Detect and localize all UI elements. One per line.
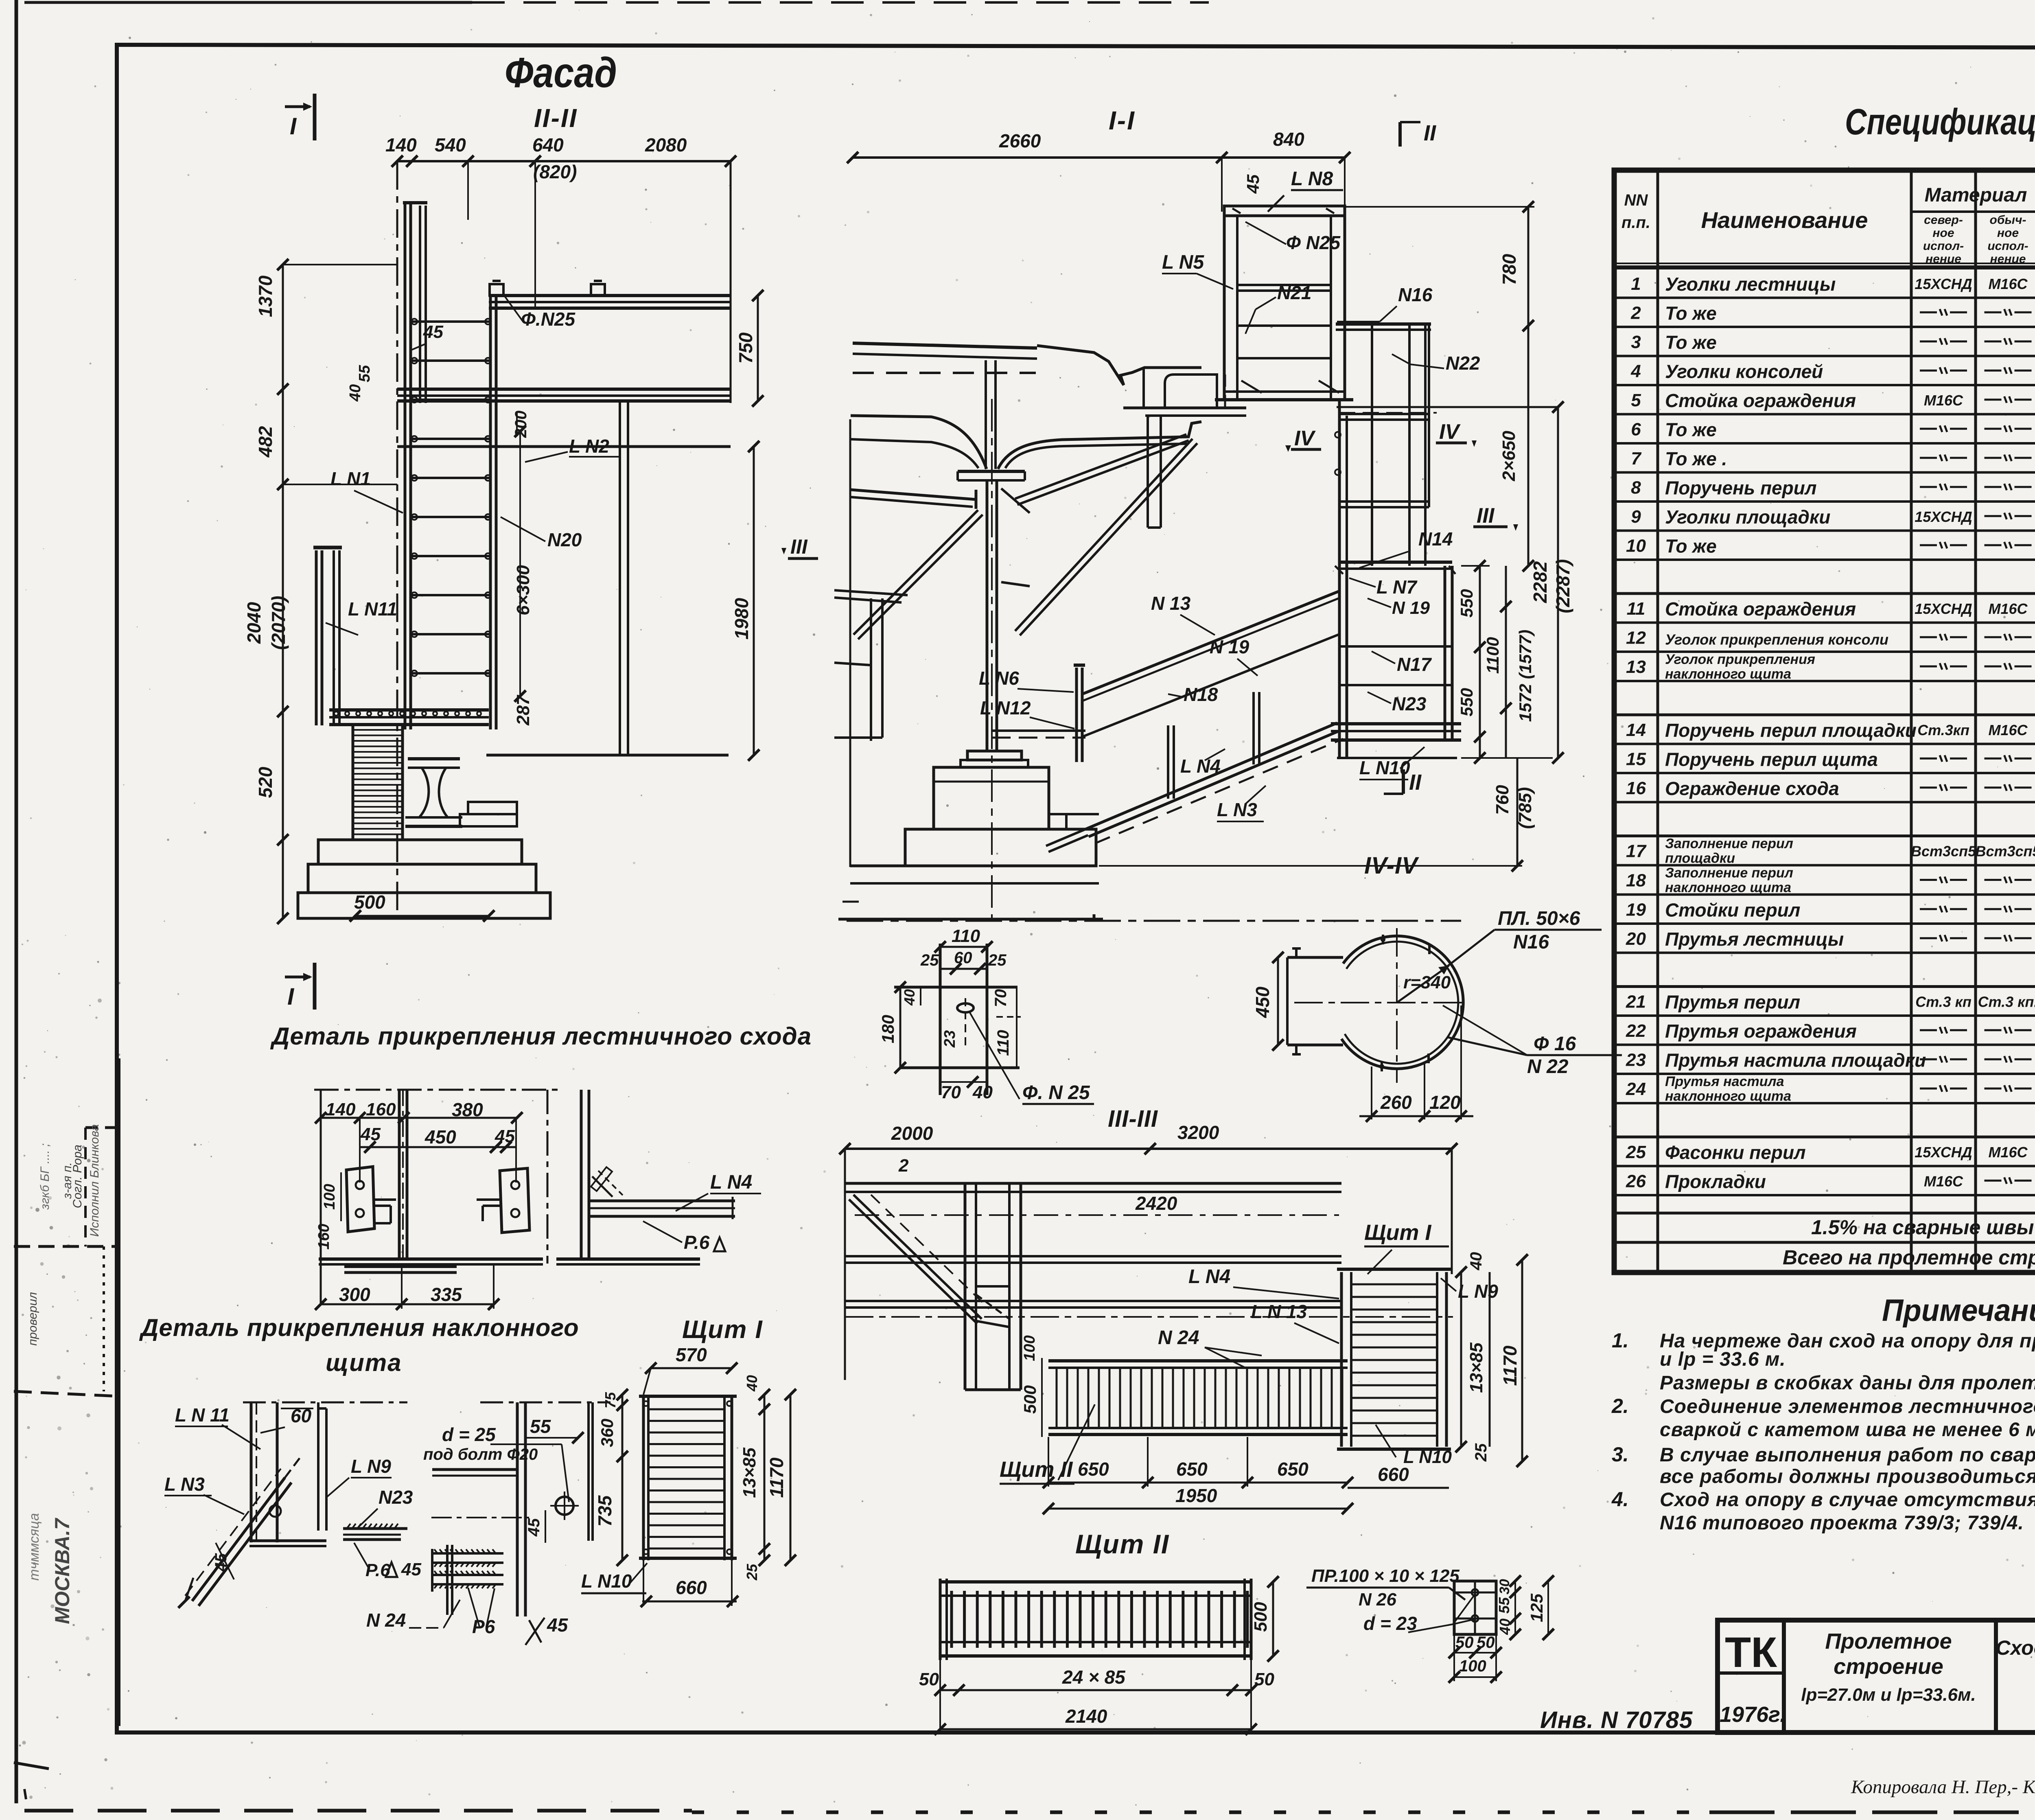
- svg-text:Поручень перил щита: Поручень перил щита: [1665, 749, 1878, 770]
- I-I left lower deck: [834, 590, 908, 595]
- svg-text:40: 40: [901, 989, 918, 1006]
- svg-text:70: 70: [992, 989, 1010, 1007]
- II-II base slab 1: [318, 840, 522, 864]
- Schit I right dims: [764, 1395, 766, 1560]
- svg-text:Фасад: Фасад: [505, 49, 617, 96]
- svg-text:2040: 2040: [243, 602, 265, 644]
- I-I pier steps: [1049, 813, 1099, 815]
- svg-text:25: 25: [744, 1564, 760, 1581]
- svg-text:11: 11: [1627, 599, 1646, 619]
- svg-text:2: 2: [1630, 303, 1641, 323]
- svg-text:Ст.3кп: Ст.3кп: [1917, 722, 1969, 738]
- svg-text:Уголки площадки: Уголки площадки: [1665, 506, 1830, 528]
- svg-text:наклонного щита: наклонного щита: [1665, 666, 1791, 682]
- svg-text:L N 11: L N 11: [175, 1404, 230, 1426]
- svg-text:Пролетное: Пролетное: [1825, 1629, 1952, 1654]
- Schit II end posts: [939, 1579, 942, 1660]
- I-I girder end web outline: [1037, 346, 1201, 385]
- svg-text:25: 25: [1626, 1142, 1646, 1162]
- I-I diagonal braces: [1015, 434, 1186, 499]
- svg-text:N23: N23: [1392, 693, 1427, 714]
- detail3 column LN11: [250, 1402, 253, 1542]
- svg-text:L N12: L N12: [980, 697, 1031, 718]
- svg-text:L N2: L N2: [569, 436, 609, 457]
- Schit II panel top rail: [940, 1580, 1251, 1583]
- svg-text:2×650: 2×650: [1499, 431, 1519, 482]
- bracket verticals: [939, 944, 942, 1095]
- svg-text:1976г.: 1976г.: [1720, 1702, 1786, 1727]
- I-I left extension line: [849, 419, 851, 867]
- svg-text:IV-IV: IV-IV: [1364, 852, 1419, 879]
- svg-text:и lр = 33.6 м.: и lр = 33.6 м.: [1660, 1349, 1786, 1370]
- svg-text:L N1: L N1: [330, 468, 371, 489]
- II-II dim 750 right: [757, 296, 759, 401]
- svg-text:L N11: L N11: [348, 598, 397, 620]
- detail2 column: [580, 1090, 583, 1259]
- svg-text:М16С: М16С: [1988, 276, 2028, 292]
- svg-text:ПЛ. 50×6: ПЛ. 50×6: [1498, 908, 1580, 929]
- table data rows: [1614, 297, 2035, 299]
- svg-text:735: 735: [594, 1495, 615, 1527]
- svg-text:6×300: 6×300: [513, 565, 533, 615]
- svg-text:2000: 2000: [891, 1123, 933, 1144]
- Schit I panel: [642, 1395, 645, 1560]
- II-II left dimension chain: [282, 265, 284, 918]
- svg-text:2420: 2420: [1135, 1193, 1177, 1214]
- IV-IV duct: [1287, 956, 1343, 959]
- I-I stair lower rail: [1046, 829, 1085, 846]
- detail3 angle N23: [343, 1527, 407, 1530]
- IV-IV dim 450: [1277, 957, 1279, 1045]
- III-III gusset detail: [976, 1286, 1009, 1327]
- svg-text:4: 4: [1630, 361, 1641, 381]
- svg-text:15ХСНД: 15ХСНД: [1915, 600, 1972, 617]
- detail1 bracket A: [346, 1167, 374, 1232]
- Schit II panel bottom rail: [940, 1641, 1251, 1643]
- I-I pedestal lower block: [905, 829, 1096, 866]
- svg-text:2: 2: [898, 1156, 909, 1176]
- Schit II bars: [952, 1591, 1247, 1648]
- svg-text:Уголки консолей: Уголки консолей: [1665, 361, 1823, 382]
- III-III beam 3: [845, 1300, 1341, 1302]
- svg-text:ное: ное: [1997, 226, 2019, 240]
- svg-text:18: 18: [1626, 871, 1646, 891]
- III-III centerline: [845, 1316, 1453, 1318]
- svg-text:L N6: L N6: [979, 668, 1019, 689]
- II-II dim 500 bottom: [355, 915, 489, 917]
- II-II base slab 2: [308, 864, 536, 893]
- svg-text:760: 760: [1492, 785, 1512, 815]
- I-I cable box extension lines: [1221, 158, 1223, 212]
- svg-text:2140: 2140: [1065, 1706, 1107, 1727]
- svg-text:Ограждение схода: Ограждение схода: [1665, 778, 1839, 799]
- I-I platform deck: [1331, 722, 1461, 725]
- detail1 bracket B: [500, 1168, 530, 1233]
- svg-text:наклонного щита: наклонного щита: [1665, 880, 1791, 896]
- I-I dim 2282 (2287): [1557, 407, 1559, 758]
- II-II top dimension line: [397, 160, 731, 162]
- detail3 angle LN9: [317, 1402, 319, 1531]
- I-I handrail posts: [1167, 725, 1169, 799]
- I-I top dimension line: [853, 156, 1222, 159]
- III-III column: [964, 1183, 967, 1390]
- svg-text:N 26: N 26: [1359, 1590, 1396, 1610]
- svg-text:Всего на пролетное строение: Всего на пролетное строение: [1783, 1246, 2035, 1269]
- detail3 diagonal LN3: [192, 1478, 285, 1601]
- svg-text:N22: N22: [1446, 353, 1480, 374]
- detail1 left dim line: [320, 1090, 322, 1304]
- svg-text:lр=27.0м и lр=33.6м.: lр=27.0м и lр=33.6м.: [1801, 1685, 1976, 1705]
- IV-IV centerlines: [1294, 1002, 1465, 1003]
- svg-text:1.5% на сварные швы: 1.5% на сварные швы: [1811, 1216, 2034, 1239]
- svg-text:1100: 1100: [1483, 637, 1502, 674]
- svg-text:испол-: испол-: [1987, 239, 2028, 253]
- svg-text:Р6: Р6: [472, 1616, 495, 1637]
- bracket dim 180 rotated: [899, 987, 902, 1068]
- svg-text:160: 160: [366, 1099, 396, 1119]
- svg-text:13×85: 13×85: [740, 1448, 759, 1498]
- svg-text:Р.6: Р.6: [684, 1232, 710, 1253]
- svg-text:570: 570: [676, 1344, 707, 1365]
- svg-text:Ф. N 25: Ф. N 25: [1022, 1082, 1090, 1104]
- I-I right dim chain 780: [1527, 207, 1530, 326]
- svg-text:згкб БГ .... ;: згкб БГ .... ;: [38, 1143, 52, 1210]
- svg-text:N16 типового проекта 739/3;: N16 типового проекта 739/3; 739/4.: [1660, 1512, 2024, 1534]
- svg-text:140: 140: [385, 134, 417, 155]
- section marker I top: [285, 105, 310, 108]
- svg-text:360: 360: [597, 1419, 617, 1447]
- I-I girder dashed inner line: [853, 372, 1036, 374]
- section marker II top: [1398, 122, 1402, 147]
- svg-text:Сход на опору в случае отсутст: Сход на опору в случае отсутствия кабель…: [1660, 1489, 2035, 1511]
- svg-text:55: 55: [356, 365, 373, 382]
- left stamp strip right border: [117, 1058, 120, 1726]
- svg-text:24 × 85: 24 × 85: [1062, 1667, 1126, 1688]
- svg-text:Щит II: Щит II: [1075, 1529, 1169, 1559]
- svg-text:45: 45: [1243, 174, 1263, 194]
- I-I dim 760 (785): [1516, 758, 1519, 866]
- svg-text:L N4: L N4: [710, 1172, 752, 1193]
- svg-text:L N 13: L N 13: [1251, 1301, 1307, 1322]
- III-III left extension: [844, 1149, 846, 1380]
- svg-text:550: 550: [1457, 589, 1476, 618]
- svg-text:15ХСНД: 15ХСНД: [1915, 508, 1972, 525]
- scan top edge line: [24, 1, 472, 4]
- svg-text:Стойки перил: Стойки перил: [1665, 899, 1800, 920]
- svg-text:Примечания :: Примечания :: [1882, 1293, 2035, 1328]
- II-II base step right: [460, 814, 517, 826]
- stamp strip dividers: [85, 1126, 119, 1129]
- svg-text:45: 45: [547, 1614, 569, 1636]
- I-I girder top flange: [853, 343, 1037, 348]
- svg-text:500: 500: [1020, 1385, 1039, 1414]
- detail4 chain line mid: [431, 1517, 529, 1518]
- I-I pier top lines: [850, 865, 1096, 867]
- detail4 bolt circle: [556, 1497, 573, 1515]
- detail1 column: [398, 1090, 401, 1259]
- II-II wall centerline: [396, 161, 398, 918]
- I-I dim 550 upper: [1461, 565, 1490, 567]
- svg-text:Щит II: Щит II: [1000, 1457, 1073, 1482]
- svg-text:Ф 16: Ф 16: [1534, 1033, 1576, 1055]
- Schit II dim line 24x85: [940, 1689, 1251, 1691]
- svg-text:N 13: N 13: [1151, 593, 1191, 614]
- svg-text:То же: То же: [1665, 535, 1717, 556]
- III-III beam 2: [845, 1255, 1341, 1257]
- detail4 column: [516, 1402, 519, 1616]
- svg-text:23: 23: [1626, 1050, 1646, 1070]
- svg-text:IV: IV: [1294, 427, 1316, 450]
- svg-text:Уголок прикрепления консоли: Уголок прикрепления консоли: [1665, 631, 1888, 648]
- svg-text:650: 650: [1277, 1459, 1309, 1480]
- svg-text:d = 25: d = 25: [442, 1424, 496, 1445]
- svg-text:II: II: [1409, 770, 1422, 795]
- I-I pedestal block: [934, 767, 1049, 829]
- plate bottom dims: [1454, 1652, 1496, 1654]
- svg-text:2282: 2282: [1530, 561, 1551, 603]
- bracket horizontal band: [894, 986, 1017, 989]
- svg-text:Соединение элементов лестнично: Соединение элементов лестничного схода н…: [1660, 1396, 2035, 1417]
- svg-text:L N4: L N4: [1188, 1266, 1230, 1288]
- svg-text:N23: N23: [379, 1487, 413, 1508]
- svg-text:наклонного щита: наклонного щита: [1665, 1088, 1791, 1104]
- I-I railing verticals: [1371, 324, 1373, 566]
- svg-text:Спецификация металла: Спецификация металла: [1845, 102, 2035, 142]
- II-II ladder rungs: [412, 320, 490, 323]
- detail2 weld dashes: [592, 1176, 613, 1197]
- II-II rail profile: [408, 757, 460, 760]
- svg-text:3: 3: [1631, 332, 1641, 352]
- I-I bearing column: [985, 360, 987, 469]
- svg-text:М16С: М16С: [1924, 392, 1963, 409]
- svg-text:Прокладки: Прокладки: [1665, 1171, 1766, 1192]
- svg-text:4.: 4.: [1611, 1488, 1629, 1511]
- svg-text:100: 100: [1459, 1657, 1486, 1675]
- section marker II bottom: [1402, 769, 1405, 794]
- svg-text:160: 160: [315, 1224, 333, 1249]
- bracket bolt hole: [957, 1003, 974, 1012]
- svg-text:МОСКВА.7: МОСКВА.7: [51, 1518, 74, 1624]
- svg-text:19: 19: [1626, 900, 1646, 920]
- svg-text:450: 450: [425, 1126, 456, 1148]
- svg-text:15ХСНД: 15ХСНД: [1915, 276, 1972, 292]
- I-I girder fishbelly bottom flange right: [998, 422, 1201, 469]
- svg-text:1170: 1170: [766, 1457, 787, 1498]
- scan bottom edge dashed line: [24, 1809, 692, 1813]
- svg-text:Ст.3 кп: Ст.3 кп: [1915, 993, 1972, 1010]
- svg-text:8: 8: [1631, 477, 1641, 497]
- svg-text:Деталь прикрепления лестничн: Деталь прикрепления лестничного схода: [270, 1023, 812, 1050]
- svg-text:780: 780: [1499, 254, 1520, 285]
- long chain line under I-I: [847, 920, 1461, 922]
- svg-text:3200: 3200: [1177, 1122, 1219, 1143]
- svg-text:Материал: Материал: [1925, 184, 2027, 206]
- svg-text:ПР.100 × 10 × 125: ПР.100 × 10 × 125: [1311, 1566, 1460, 1586]
- table header lines: [1614, 265, 2035, 269]
- IV-IV radius arrow: [1397, 966, 1449, 1003]
- table 366 row: [1614, 1212, 2035, 1215]
- svg-text:Сход на опору -/ при наличии: Сход на опору -/ при наличии: [1996, 1636, 2035, 1659]
- svg-text:То же: То же: [1665, 302, 1717, 324]
- svg-text:(2070): (2070): [268, 596, 289, 650]
- svg-text:40: 40: [347, 384, 364, 402]
- svg-text:Вст3сп5: Вст3сп5: [1975, 843, 2035, 860]
- II-II bottom horizontal: [486, 754, 729, 757]
- svg-text:25: 25: [920, 951, 939, 969]
- svg-text:Поручень перил: Поручень перил: [1665, 477, 1816, 498]
- svg-text:L N4: L N4: [1180, 756, 1221, 777]
- svg-text:I: I: [287, 983, 295, 1010]
- svg-text:50: 50: [1254, 1669, 1274, 1689]
- svg-text:Стойка ограждения: Стойка ограждения: [1665, 390, 1856, 411]
- svg-text:5: 5: [1631, 390, 1641, 410]
- table 1.5% row: [1614, 1241, 2035, 1244]
- svg-text:50: 50: [919, 1669, 939, 1689]
- svg-text:N17: N17: [1397, 654, 1432, 675]
- svg-text:50: 50: [1477, 1634, 1495, 1651]
- I-I pedestal base plate: [967, 751, 1022, 760]
- svg-text:14: 14: [1626, 720, 1646, 740]
- title block Пролетное строение box: [1994, 1620, 1998, 1732]
- svg-text:750: 750: [735, 332, 756, 364]
- svg-text:N 22: N 22: [1527, 1056, 1569, 1078]
- svg-text:3.: 3.: [1612, 1443, 1629, 1466]
- svg-text:I-I: I-I: [1109, 106, 1136, 135]
- Schit I top dim 570: [651, 1367, 732, 1369]
- svg-text:1.: 1.: [1612, 1329, 1629, 1352]
- stamp bottom mark: [14, 1763, 49, 1769]
- svg-text:30: 30: [1497, 1579, 1512, 1594]
- svg-text:IV: IV: [1439, 420, 1461, 444]
- svg-text:110: 110: [952, 926, 980, 946]
- svg-text:45: 45: [401, 1559, 421, 1579]
- svg-text:45: 45: [212, 1553, 230, 1572]
- svg-text:N16: N16: [1513, 931, 1549, 953]
- svg-text:840: 840: [1273, 129, 1304, 150]
- svg-text:45: 45: [360, 1124, 381, 1144]
- detail3 top chain line: [243, 1402, 407, 1404]
- svg-text:25: 25: [1472, 1443, 1490, 1462]
- svg-text:2.: 2.: [1611, 1395, 1629, 1417]
- scan left edge line: [15, 0, 18, 1803]
- svg-text:проверил: проверил: [26, 1292, 39, 1346]
- III-III right dims: [1460, 1272, 1462, 1447]
- svg-text:13×85: 13×85: [1466, 1343, 1486, 1393]
- title block TK box: [1782, 1620, 1786, 1732]
- svg-text:L N9: L N9: [1458, 1281, 1498, 1302]
- svg-text:650: 650: [1078, 1459, 1109, 1480]
- svg-text:То же .: То же .: [1665, 448, 1727, 469]
- svg-text:15ХСНД: 15ХСНД: [1915, 1144, 1972, 1161]
- I-I brace gusset: [1001, 488, 1030, 513]
- I-I centerline of bearing: [991, 399, 993, 922]
- I-I platform corner marks: [1335, 566, 1343, 574]
- svg-text:40: 40: [1497, 1619, 1513, 1635]
- svg-text:6: 6: [1631, 419, 1641, 439]
- table column lines: [1656, 170, 1659, 1272]
- svg-text:450: 450: [1252, 986, 1273, 1018]
- svg-text:10: 10: [1626, 536, 1646, 556]
- I-I left walkway angle: [851, 490, 976, 499]
- svg-text:180: 180: [878, 1015, 897, 1043]
- I-I bearing column cap plate: [958, 470, 1025, 473]
- svg-text:287: 287: [513, 694, 533, 726]
- svg-text:II: II: [1424, 121, 1436, 145]
- svg-text:Стойка ограждения: Стойка ограждения: [1665, 598, 1856, 620]
- II-II dim 1980 right: [753, 447, 755, 755]
- detail2 base: [556, 1257, 700, 1261]
- svg-text:1: 1: [1631, 274, 1641, 294]
- svg-text:Наименование: Наименование: [1701, 207, 1868, 233]
- svg-text:ТК: ТК: [1725, 1629, 1777, 1676]
- IV-IV bottom dims: [1371, 1067, 1372, 1119]
- detail1 right chain vertical: [547, 1090, 549, 1264]
- svg-text:N21: N21: [1277, 282, 1311, 303]
- svg-text:335: 335: [431, 1284, 462, 1305]
- svg-text:25: 25: [988, 951, 1007, 969]
- detail1 top chain line: [314, 1089, 563, 1091]
- svg-text:N20: N20: [547, 529, 582, 550]
- svg-text:L N5: L N5: [1162, 252, 1204, 273]
- svg-text:N16: N16: [1398, 284, 1433, 305]
- dim 1950: [1048, 1508, 1348, 1510]
- svg-text:ное: ное: [1932, 226, 1954, 240]
- II-II bottom platform with rivets: [329, 708, 489, 712]
- svg-text:L N3: L N3: [164, 1474, 205, 1495]
- II-II ladder right stringer: [489, 297, 492, 729]
- svg-text:1572 (1577): 1572 (1577): [1516, 630, 1535, 722]
- title block main box: [1718, 1620, 2035, 1732]
- svg-text:Щит I: Щит I: [682, 1316, 763, 1344]
- IV-IV bolts: [1382, 935, 1384, 944]
- svg-text:50: 50: [1455, 1634, 1474, 1651]
- svg-text:L N9: L N9: [351, 1456, 391, 1477]
- II-II base slab 3: [298, 893, 550, 918]
- svg-text:500: 500: [354, 891, 385, 913]
- svg-text:100: 100: [1021, 1335, 1038, 1361]
- svg-text:III-III: III-III: [1108, 1106, 1158, 1132]
- svg-text:L N10: L N10: [1359, 757, 1410, 778]
- svg-text:300: 300: [339, 1284, 370, 1305]
- I-I cable box bottom flange: [1215, 398, 1353, 401]
- svg-text:260: 260: [1380, 1092, 1412, 1113]
- svg-text:7: 7: [1631, 449, 1642, 469]
- svg-text:660: 660: [676, 1577, 707, 1598]
- svg-text:В случае выполнения работ по с: В случае выполнения работ по сварке при …: [1660, 1444, 2035, 1466]
- svg-text:26: 26: [1626, 1171, 1646, 1191]
- Schit I bottom dim 660: [642, 1601, 737, 1603]
- svg-text:обыч-: обыч-: [1990, 213, 2026, 227]
- svg-text:М16С: М16С: [1988, 1144, 2028, 1161]
- I-I cable box: [1224, 206, 1345, 400]
- I-I deck line right: [1337, 406, 1558, 408]
- II-II element LN11: [315, 550, 318, 725]
- svg-text:40: 40: [1467, 1252, 1485, 1271]
- svg-text:1950: 1950: [1175, 1485, 1217, 1506]
- svg-text:40: 40: [972, 1082, 993, 1102]
- svg-text:125: 125: [1527, 1593, 1546, 1622]
- svg-text:r=340: r=340: [1403, 972, 1451, 992]
- svg-text:Прутья настила: Прутья настила: [1665, 1074, 1784, 1089]
- svg-text:650: 650: [1176, 1459, 1208, 1480]
- svg-text:140: 140: [326, 1099, 356, 1119]
- svg-text:540: 540: [435, 134, 466, 155]
- svg-text:55: 55: [1496, 1597, 1512, 1614]
- Schit II dim 2140: [940, 1728, 1251, 1730]
- svg-text:16: 16: [1626, 778, 1646, 798]
- svg-text:все работы должны производитьс: все работы должны производиться в соотве…: [1660, 1466, 2035, 1487]
- svg-text:нение: нение: [1926, 252, 1961, 266]
